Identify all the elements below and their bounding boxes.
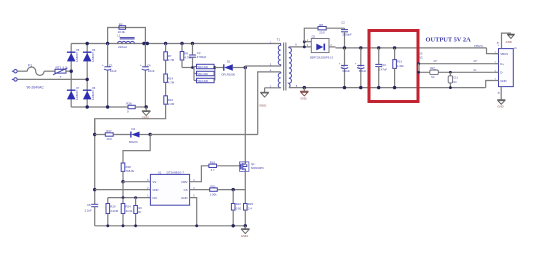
svg-text:2.2uF: 2.2uF: [85, 209, 92, 213]
node NC row at C7: [134, 196, 137, 199]
resistor R20 4.02M: [106, 198, 119, 226]
node D- left: [417, 71, 420, 74]
svg-text:10.0k: 10.0k: [118, 30, 126, 34]
svg-text:D2: D2: [312, 35, 316, 39]
node D+ left: [417, 62, 420, 65]
svg-text:D+: D+: [434, 59, 438, 63]
svg-text:C13: C13: [453, 77, 458, 80]
node R13 bottom: [393, 86, 396, 89]
svg-text:C10: C10: [381, 63, 386, 67]
node VDD junction: [93, 188, 96, 191]
connector P1 AC input terminals: [12, 70, 17, 82]
resistor R27 NC on D-: [430, 67, 439, 79]
svg-text:20.0: 20.0: [319, 31, 325, 35]
node clamp R9 top: [180, 42, 183, 45]
diode D3 NC: [419, 52, 423, 60]
wire DRV pin step up: [190, 166, 209, 182]
svg-text:2.47uF: 2.47uF: [379, 67, 388, 71]
wire right bus to D1: [215, 67, 224, 69]
node C10 bottom: [377, 86, 380, 89]
svg-text:L1: L1: [117, 34, 120, 38]
diode D1 DFLR1600: [222, 60, 246, 77]
node R26 to C4 junction: [145, 105, 148, 108]
svg-text:GND: GND: [497, 105, 503, 109]
wire Q1 source to CS node: [244, 171, 246, 189]
diode D8 1A/600V lower-right: [83, 87, 96, 100]
wire D4 node to aux winding pin 4: [150, 134, 258, 136]
node CS sense junction: [232, 188, 235, 191]
transistor Q1 60R190P6: [240, 162, 265, 171]
svg-text:R20: R20: [110, 204, 116, 208]
resistor R16 2.2M: [164, 96, 175, 106]
wire primary bottom rail: [95, 225, 246, 227]
svg-text:0.50: 0.50: [236, 206, 242, 210]
svg-text:C6: C6: [342, 65, 346, 69]
svg-text:1A/600V: 1A/600V: [75, 52, 79, 62]
capacitor C1 10uF: [102, 44, 117, 108]
svg-text:10uF: 10uF: [148, 69, 155, 73]
resistor R25 2.4: [244, 190, 254, 226]
svg-text:+: +: [140, 63, 142, 67]
resistor R12 620: [194, 78, 215, 83]
svg-text:R12 620: R12 620: [198, 79, 208, 83]
resistor R13 1.30k: [393, 48, 404, 88]
red highlight box: [369, 31, 418, 102]
wire VBUS step to connector: [487, 48, 499, 54]
wire secondary ground rail: [289, 87, 486, 89]
svg-text:R13: R13: [397, 60, 402, 64]
transformer T1: [270, 38, 298, 91]
svg-text:10uF: 10uF: [110, 69, 117, 73]
ground GND1 at bridge: [142, 107, 151, 120]
node C9 bottom: [359, 86, 362, 89]
node rail R25: [244, 224, 247, 227]
svg-text:4.7M: 4.7M: [168, 80, 175, 84]
node C2/C6: [343, 46, 346, 49]
wire D+ to D- stub: [418, 64, 420, 73]
svg-text:NC: NC: [431, 76, 435, 79]
node AC1 junction: [70, 70, 73, 73]
wire startup string down and left to VDD column: [95, 104, 166, 134]
node C13 top: [449, 71, 452, 74]
fuse F1: [27, 64, 44, 76]
wire bridge left column: [70, 44, 72, 108]
svg-text:VDD: VDD: [152, 188, 158, 192]
svg-text:GND: GND: [506, 40, 512, 44]
wire F1 to RT1: [44, 70, 55, 72]
svg-text:D1: D1: [227, 60, 231, 64]
svg-text:U1: U1: [158, 170, 162, 174]
node switch node at D1: [244, 66, 247, 69]
node bridge bottom right: [86, 105, 89, 108]
svg-text:768.0k: 768.0k: [126, 169, 135, 173]
ground GND below connector: [497, 87, 505, 109]
wire clamp junction: [182, 67, 194, 69]
wire RT1 to bridge: [66, 70, 71, 72]
wire secondary top pin 6: [289, 46, 311, 48]
wire aux pin 2 to ground: [265, 87, 281, 89]
svg-text:43.0k: 43.0k: [126, 209, 133, 213]
svg-text:1A/600V: 1A/600V: [91, 90, 95, 100]
node R13 top: [393, 46, 396, 49]
svg-text:1.00k: 1.00k: [210, 192, 217, 196]
diode D6 1A/600V upper-right: [83, 49, 96, 62]
resistor R17 10.0: [105, 129, 131, 141]
svg-text:C1: C1: [109, 63, 113, 67]
capacitor C3 4700pF: [189, 44, 207, 68]
node C13 bottom: [449, 86, 452, 89]
svg-text:R8: R8: [319, 23, 323, 27]
svg-text:D-: D-: [500, 71, 503, 75]
svg-text:F1: F1: [28, 64, 32, 68]
svg-text:R24: R24: [126, 204, 132, 208]
capacitor C6 680uF: [339, 48, 351, 88]
svg-text:C2: C2: [341, 20, 345, 24]
svg-text:GND: GND: [181, 196, 187, 200]
wire CS row: [190, 189, 210, 191]
svg-text:DFLR1600: DFLR1600: [222, 73, 236, 77]
resistor R5 10.0k: [118, 22, 126, 34]
capacitor C10 2.47uF: [375, 48, 387, 88]
wire IC GND pin to rail: [190, 198, 197, 226]
svg-text:D+: D+: [474, 59, 478, 63]
svg-text:R5: R5: [119, 22, 123, 26]
node L1 right: [142, 42, 145, 45]
resistor R26 0: [126, 102, 146, 114]
resistor R19 4.7: [209, 161, 241, 172]
node startup string top: [164, 42, 167, 45]
svg-text:DRV: DRV: [182, 180, 188, 184]
node rail IC GND: [195, 224, 198, 227]
svg-text:R26: R26: [126, 102, 132, 106]
node C9 top: [359, 46, 362, 49]
op-amp/controller U1: [147, 170, 195, 205]
svg-text:T: T: [60, 75, 62, 79]
wire bridge right column: [86, 44, 88, 108]
svg-text:OUTPUT 5V 2A: OUTPUT 5V 2A: [426, 36, 472, 43]
svg-text:+: +: [102, 63, 104, 67]
node rail R20: [106, 224, 109, 227]
svg-text:2.4: 2.4: [248, 206, 252, 210]
ground GND secondary: [300, 88, 308, 101]
wire VDD column vertical: [94, 119, 96, 205]
resistor R23 0.50: [231, 190, 241, 226]
node clamp C3 top: [191, 42, 194, 45]
svg-text:2200pF: 2200pF: [342, 33, 352, 37]
node C10 top: [377, 46, 380, 49]
svg-text:R10 620: R10 620: [198, 65, 208, 69]
svg-text:D4: D4: [132, 127, 136, 131]
svg-text:Q1: Q1: [251, 162, 255, 166]
svg-text:1.30k: 1.30k: [397, 64, 404, 68]
svg-text:D+: D+: [500, 62, 504, 66]
capacitor C2 2200pF: [341, 20, 352, 48]
ground GND1 at aux winding: [259, 88, 269, 108]
resistor R14 4.7M: [164, 74, 175, 84]
wire primary bottom pin 3: [245, 65, 280, 67]
svg-text:NC: NC: [419, 55, 423, 59]
wire aux pin 4 to bias: [258, 72, 281, 135]
node VDD column at D4 row: [93, 133, 96, 136]
node D4 cathode junction: [149, 133, 152, 136]
svg-text:GND: GND: [300, 96, 306, 100]
capacitor C8 2.2uF: [85, 203, 99, 226]
svg-text:R17: R17: [106, 129, 112, 133]
svg-text:R23: R23: [236, 202, 242, 206]
resistor R7 4.7M: [164, 44, 175, 63]
svg-text:680uF: 680uF: [342, 69, 350, 73]
svg-text:60R190P6: 60R190P6: [251, 166, 264, 170]
wire VS divider vertical: [122, 182, 124, 198]
svg-text:680uF: 680uF: [359, 69, 367, 73]
resistor R8 20.0: [318, 23, 345, 35]
wire switch node vertical to Q1 drain: [244, 66, 246, 163]
capacitor C7 N/C: [134, 198, 142, 226]
node D2 pin1: [303, 40, 306, 43]
svg-text:4700pF: 4700pF: [197, 55, 207, 59]
node rail R24: [122, 224, 125, 227]
diode D4 BAV20: [129, 127, 150, 144]
svg-text:T1: T1: [277, 38, 281, 42]
svg-text:C8: C8: [87, 203, 91, 207]
svg-text:N/C: N/C: [152, 196, 157, 200]
svg-text:R25: R25: [248, 202, 254, 206]
svg-text:RT1 4.7: RT1 4.7: [56, 66, 68, 70]
node L1 left: [106, 42, 109, 45]
svg-text:VBUS: VBUS: [474, 44, 483, 48]
node clamp right bus to D1: [213, 66, 216, 69]
node top rail at bridge right: [86, 42, 89, 45]
svg-text:VS: VS: [152, 180, 156, 184]
diode D7 1A/600V lower-left: [67, 87, 80, 100]
svg-text:NC: NC: [453, 81, 457, 84]
wire bridge bottom rail: [71, 106, 128, 108]
svg-text:4.02M: 4.02M: [110, 209, 118, 213]
svg-text:VBUS: VBUS: [500, 52, 508, 56]
node rail C7: [134, 224, 137, 227]
wire D2 anode pins tie: [303, 42, 305, 47]
svg-text:1A/600V: 1A/600V: [91, 52, 95, 62]
svg-text:D-: D-: [474, 68, 477, 72]
svg-text:C9: C9: [358, 65, 362, 69]
svg-text:1A/600V: 1A/600V: [75, 90, 79, 100]
ground GND1 at sense rail: [241, 226, 250, 238]
wire VS row to IC: [123, 181, 150, 183]
wire clamp left bus: [193, 67, 195, 81]
wire VBUS rail: [336, 47, 487, 49]
svg-text:N/C: N/C: [138, 206, 143, 210]
resistor R9 4.70k: [180, 44, 192, 68]
wire D- line: [419, 71, 494, 73]
diode D5 1A/600V upper-left: [67, 49, 80, 62]
capacitor C9 680uF: [355, 48, 367, 88]
wire R5 bypass loop: [108, 28, 146, 44]
node C3 bottom junction: [191, 66, 194, 69]
wire GND step to connector: [486, 81, 494, 88]
thermistor RT1: [53, 66, 68, 79]
resistor R11 620: [194, 71, 215, 76]
svg-text:GND1: GND1: [241, 234, 249, 238]
wire VDD row to IC: [95, 189, 151, 191]
wire D+ line: [419, 63, 494, 65]
node rail R23: [232, 224, 235, 227]
resistor R10 620: [194, 64, 215, 69]
svg-text:GND1: GND1: [259, 104, 267, 108]
svg-text:90-264VAC: 90-264VAC: [27, 86, 45, 90]
connector J1 USB: [493, 45, 517, 87]
diode D2 SBRT15U50SP5-13: [307, 35, 336, 60]
svg-text:R21: R21: [211, 184, 217, 188]
svg-text:GND: GND: [500, 79, 506, 83]
wire R7 to R14: [165, 60, 167, 74]
wire snubber tap: [304, 28, 318, 42]
resistor R24 43.0k: [121, 198, 133, 226]
node AC2 junction: [86, 78, 89, 81]
wire clamp right bus: [214, 67, 216, 81]
svg-text:R11 620: R11 620: [198, 72, 208, 76]
wire AC line 1: [17, 70, 27, 72]
wire top rail DC+: [71, 43, 281, 45]
svg-text:C4: C4: [147, 63, 151, 67]
svg-text:DT2A08SG-7: DT2A08SG-7: [167, 171, 185, 175]
svg-text:D3: D3: [419, 52, 423, 56]
node secondary ground tap: [303, 86, 306, 89]
svg-text:BAV20: BAV20: [129, 140, 138, 144]
node VS junction: [121, 180, 124, 183]
svg-text:220uH: 220uH: [118, 45, 127, 49]
svg-text:4.7M: 4.7M: [168, 58, 175, 62]
wire R14 to R16: [165, 82, 167, 95]
inductor L1 220uH: [117, 34, 134, 49]
svg-text:4.7: 4.7: [211, 168, 215, 172]
wire AC line 2: [17, 78, 87, 80]
capacitor C4 10uF: [140, 44, 155, 108]
wire NC row to IC: [108, 197, 151, 199]
svg-text:NC: NC: [138, 211, 142, 214]
node NC row at R24: [122, 196, 125, 199]
wire D4 row left segment: [95, 134, 106, 136]
svg-text:2.2M: 2.2M: [168, 102, 175, 106]
resistor R18 768.0k: [121, 163, 134, 182]
node C6 bottom: [343, 86, 346, 89]
svg-text:SBRT15U50SP5-13: SBRT15U50SP5-13: [310, 55, 334, 59]
capacitor C13 NC: [448, 72, 458, 87]
svg-text:R19: R19: [210, 161, 216, 165]
ground GND above connector: [497, 33, 515, 49]
wire step down to R18: [123, 135, 150, 164]
svg-text:CS: CS: [184, 188, 188, 192]
svg-text:10.0: 10.0: [106, 137, 112, 141]
node C1 bottom: [106, 105, 109, 108]
resistor R21 1.00k: [210, 184, 246, 196]
node D2 pin2: [303, 46, 306, 49]
svg-text:R27: R27: [430, 67, 435, 70]
